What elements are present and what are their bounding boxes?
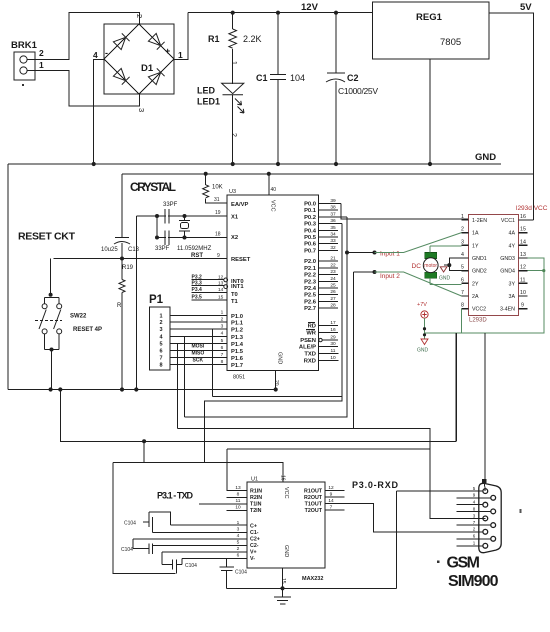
svg-text:2: 2 [461, 227, 464, 233]
svg-text:18: 18 [215, 232, 221, 238]
svg-text:C104: C104 [121, 547, 133, 553]
svg-text:3-4EN: 3-4EN [500, 307, 515, 313]
svg-text:2.2K: 2.2K [243, 34, 262, 44]
svg-text:35: 35 [330, 225, 336, 231]
svg-text:C1-: C1- [250, 530, 259, 536]
svg-text:V-: V- [250, 556, 255, 562]
svg-text:6: 6 [221, 345, 224, 351]
svg-text:P3.5: P3.5 [192, 295, 203, 301]
svg-text:12: 12 [218, 274, 224, 280]
svg-text:2: 2 [230, 133, 237, 137]
svg-text:33PF: 33PF [155, 246, 170, 252]
svg-text:INT1: INT1 [231, 284, 244, 290]
svg-text:P2.5: P2.5 [304, 293, 317, 299]
svg-text:GND3: GND3 [500, 256, 515, 262]
svg-text:3A: 3A [509, 294, 516, 300]
svg-text:3: 3 [237, 527, 240, 533]
svg-text:P1.1: P1.1 [231, 321, 244, 327]
svg-text:SIM900: SIM900 [448, 573, 499, 590]
svg-text:4: 4 [221, 331, 224, 337]
svg-text:7: 7 [159, 355, 162, 361]
svg-text:T1OUT: T1OUT [305, 502, 323, 508]
svg-text:6: 6 [237, 553, 240, 559]
svg-text:10K: 10K [212, 185, 223, 191]
svg-text:13: 13 [235, 485, 241, 491]
svg-text:P3.0-RXD: P3.0-RXD [352, 480, 399, 490]
svg-text:40: 40 [271, 187, 277, 193]
svg-text:4Y: 4Y [509, 243, 516, 249]
svg-text:VCC1: VCC1 [501, 218, 515, 224]
svg-text:7: 7 [330, 505, 333, 511]
svg-text:P2.7: P2.7 [304, 306, 316, 312]
svg-text:P3.1 - TXD: P3.1 - TXD [157, 491, 194, 501]
svg-text:P0.5: P0.5 [304, 235, 317, 241]
svg-text:motor: motor [424, 263, 437, 269]
svg-text:P2.3: P2.3 [304, 279, 317, 285]
svg-text:Input 1: Input 1 [380, 251, 400, 258]
svg-text:C13: C13 [128, 247, 140, 253]
svg-text:28: 28 [330, 303, 336, 309]
svg-text:39: 39 [330, 198, 336, 204]
svg-text:GND: GND [283, 545, 289, 557]
svg-text:P1.3: P1.3 [231, 335, 244, 341]
svg-text:RESET 4P: RESET 4P [73, 327, 102, 333]
svg-text:R1IN: R1IN [250, 488, 262, 494]
svg-text:8: 8 [461, 303, 464, 309]
svg-text:9: 9 [521, 303, 524, 309]
svg-text:R2OUT: R2OUT [304, 495, 323, 501]
svg-text:LED: LED [197, 86, 216, 96]
svg-text:33: 33 [330, 238, 336, 244]
svg-text:C2: C2 [347, 73, 359, 83]
svg-text:V+: V+ [250, 550, 257, 556]
svg-text:C+: C+ [250, 524, 257, 530]
svg-text:P0.4: P0.4 [304, 228, 317, 234]
svg-text:X1: X1 [231, 215, 239, 221]
svg-text:2: 2 [39, 48, 44, 58]
svg-text:P1.0: P1.0 [231, 314, 243, 320]
svg-text:GND: GND [439, 276, 451, 282]
svg-text:P2.6: P2.6 [304, 299, 317, 305]
svg-text:P2.0: P2.0 [304, 259, 316, 265]
svg-text:26: 26 [330, 289, 336, 295]
svg-text:WR: WR [306, 331, 316, 337]
svg-text:2Y: 2Y [472, 281, 479, 287]
svg-text:D1: D1 [141, 63, 154, 74]
svg-text:3: 3 [159, 327, 162, 333]
svg-text:7: 7 [221, 352, 224, 358]
svg-text:10: 10 [520, 290, 526, 296]
svg-text:16: 16 [280, 475, 286, 481]
svg-text:104: 104 [290, 73, 305, 83]
svg-text:11: 11 [236, 498, 241, 504]
svg-text:19: 19 [215, 210, 221, 216]
svg-text:20: 20 [273, 380, 279, 386]
svg-text:37: 37 [330, 211, 336, 217]
svg-text:R19: R19 [122, 265, 134, 271]
svg-text:T0: T0 [231, 292, 238, 298]
svg-text:9: 9 [330, 491, 333, 497]
svg-text:5: 5 [237, 540, 240, 546]
svg-text:L293D: L293D [469, 318, 487, 324]
svg-text:10: 10 [330, 355, 336, 361]
svg-text:30: 30 [330, 341, 336, 347]
svg-text:10u25: 10u25 [101, 247, 118, 253]
svg-text:7805: 7805 [440, 37, 461, 48]
svg-text:23: 23 [330, 269, 336, 275]
svg-text:GND1: GND1 [472, 256, 487, 262]
svg-text:P1.5: P1.5 [231, 349, 244, 355]
svg-text:17: 17 [330, 320, 336, 326]
svg-text:1: 1 [39, 60, 44, 70]
svg-text:24: 24 [330, 276, 336, 282]
svg-text:3: 3 [461, 239, 464, 245]
svg-text:C104: C104 [235, 570, 247, 576]
svg-text:5V: 5V [520, 2, 532, 13]
svg-text:31: 31 [214, 197, 220, 203]
svg-text:P1.6: P1.6 [231, 356, 244, 362]
svg-text:VCC2: VCC2 [472, 307, 486, 313]
svg-text:16: 16 [520, 214, 526, 220]
svg-text:11: 11 [331, 348, 336, 354]
svg-text:11: 11 [520, 277, 526, 283]
svg-text:U3: U3 [229, 189, 236, 195]
svg-text:13: 13 [218, 281, 224, 287]
svg-text:EA/VP: EA/VP [231, 202, 249, 208]
svg-text:R1OUT: R1OUT [304, 488, 323, 494]
svg-text:X2: X2 [231, 235, 238, 241]
svg-text:2: 2 [135, 14, 144, 18]
svg-text:1: 1 [178, 50, 183, 60]
svg-text:P0.6: P0.6 [304, 242, 317, 248]
svg-text:1-2EN: 1-2EN [472, 218, 487, 224]
svg-text:REG1: REG1 [416, 12, 443, 23]
svg-text:4: 4 [461, 252, 464, 258]
svg-text:SW22: SW22 [70, 314, 87, 320]
svg-text:14: 14 [328, 498, 334, 504]
svg-text:2: 2 [159, 320, 162, 326]
svg-text:P0.2: P0.2 [304, 215, 316, 221]
svg-text:VCC: VCC [283, 487, 289, 499]
svg-text:GND2: GND2 [472, 269, 487, 275]
svg-text:3: 3 [221, 324, 224, 330]
svg-text:P3.2: P3.2 [192, 274, 203, 280]
svg-text:T2OUT: T2OUT [305, 508, 323, 514]
svg-text:P0.0: P0.0 [304, 202, 316, 208]
svg-text:33PF: 33PF [163, 202, 178, 208]
svg-text:1: 1 [230, 61, 237, 65]
svg-text:GSM: GSM [447, 555, 481, 572]
svg-text:P0.3: P0.3 [304, 222, 317, 228]
svg-text:VCC: VCC [270, 200, 276, 212]
svg-text:4: 4 [237, 533, 240, 539]
svg-text:P3.4: P3.4 [192, 287, 203, 293]
svg-text:+7V: +7V [417, 302, 427, 308]
svg-text:P2.4: P2.4 [304, 286, 317, 292]
svg-text:T2IN: T2IN [250, 508, 262, 514]
svg-text:1: 1 [461, 214, 464, 220]
svg-text:Input 2: Input 2 [380, 273, 400, 280]
svg-text:P1.2: P1.2 [231, 328, 243, 334]
svg-text:1A: 1A [472, 231, 479, 237]
svg-text:1Y: 1Y [472, 243, 479, 249]
svg-text:2: 2 [221, 317, 224, 323]
svg-text:16: 16 [330, 327, 336, 333]
svg-text:8: 8 [237, 491, 240, 497]
svg-text:15: 15 [280, 578, 286, 584]
svg-text:10: 10 [235, 505, 241, 511]
svg-text:GND: GND [276, 352, 282, 364]
svg-text:C104: C104 [185, 563, 197, 569]
svg-text:5: 5 [159, 341, 162, 347]
svg-text:CRYSTAL: CRYSTAL [130, 180, 176, 194]
svg-text:PSEN: PSEN [300, 338, 316, 344]
svg-text:C1000/25V: C1000/25V [338, 86, 378, 96]
svg-text:GND4: GND4 [500, 269, 515, 275]
svg-text:2: 2 [237, 546, 240, 552]
svg-text:-: - [105, 48, 108, 58]
svg-text:P3.3: P3.3 [192, 281, 203, 287]
svg-text:4: 4 [93, 50, 98, 60]
svg-text:TXD: TXD [304, 352, 316, 358]
svg-text:C104: C104 [124, 521, 136, 527]
svg-text:6: 6 [159, 348, 162, 354]
svg-text:RESET CKT: RESET CKT [18, 231, 76, 243]
svg-text:LED1: LED1 [197, 97, 220, 107]
svg-text:12: 12 [520, 265, 526, 271]
svg-text:P2.2: P2.2 [304, 273, 316, 279]
svg-text:3: 3 [137, 108, 146, 112]
svg-text:MOSI: MOSI [192, 344, 205, 350]
svg-text:5: 5 [461, 265, 464, 271]
svg-text:R1: R1 [208, 34, 220, 44]
svg-text:1: 1 [237, 520, 240, 526]
svg-text:RD: RD [308, 324, 316, 330]
svg-text:ALE/P: ALE/P [299, 345, 316, 351]
svg-text:12V: 12V [301, 2, 319, 13]
svg-text:MISO: MISO [192, 351, 205, 357]
svg-text:MAX232: MAX232 [302, 576, 323, 582]
svg-text:P1.4: P1.4 [231, 342, 244, 348]
svg-text:8051: 8051 [233, 375, 245, 381]
svg-text:15: 15 [218, 295, 224, 301]
svg-text:34: 34 [330, 232, 336, 238]
svg-text:R: R [117, 303, 122, 309]
svg-text:BRK1: BRK1 [11, 40, 38, 51]
svg-text:C1: C1 [256, 73, 268, 83]
svg-text:U1: U1 [251, 477, 258, 483]
svg-text:14: 14 [520, 239, 526, 245]
svg-text:38: 38 [330, 205, 336, 211]
svg-text:14: 14 [218, 287, 224, 293]
svg-text:5: 5 [221, 338, 224, 344]
svg-text:3Y: 3Y [509, 281, 516, 287]
svg-text:11.0592MHZ: 11.0592MHZ [177, 246, 212, 252]
svg-text:P1: P1 [149, 294, 164, 306]
svg-text:2A: 2A [472, 294, 479, 300]
svg-text:R2IN: R2IN [250, 495, 262, 501]
svg-text:4A: 4A [509, 231, 516, 237]
svg-text:8: 8 [159, 362, 162, 368]
svg-text:+: + [165, 46, 170, 56]
svg-text:12: 12 [328, 485, 334, 491]
svg-text:l293d VCC: l293d VCC [516, 205, 548, 212]
svg-text:9: 9 [217, 253, 220, 259]
svg-text:RXD: RXD [304, 359, 316, 365]
svg-text:RESET: RESET [231, 257, 251, 263]
svg-text:6: 6 [461, 277, 464, 283]
svg-text:P0.7: P0.7 [304, 248, 316, 254]
svg-text:1: 1 [221, 310, 224, 316]
svg-text:1: 1 [159, 313, 162, 319]
svg-text:32: 32 [330, 245, 336, 251]
svg-text:7: 7 [461, 290, 464, 296]
svg-text:SCK: SCK [193, 358, 204, 364]
svg-text:36: 36 [330, 218, 336, 224]
svg-text:C2+: C2+ [250, 537, 260, 543]
svg-text:29: 29 [330, 335, 336, 341]
svg-text:13: 13 [520, 252, 526, 258]
svg-text:P2.1: P2.1 [304, 266, 317, 272]
svg-text:15: 15 [520, 227, 526, 233]
svg-text:GND: GND [475, 152, 496, 163]
svg-text:22: 22 [330, 262, 336, 268]
svg-text:8: 8 [221, 359, 224, 365]
svg-text:P0.1: P0.1 [304, 208, 317, 214]
svg-text:25: 25 [330, 283, 336, 289]
svg-text:27: 27 [330, 296, 336, 302]
svg-text:GND: GND [417, 348, 429, 354]
svg-text:P1.7: P1.7 [231, 363, 243, 369]
svg-text:DC: DC [412, 263, 422, 270]
svg-text:T1: T1 [231, 299, 239, 305]
svg-text:C2-: C2- [250, 543, 259, 549]
svg-text:T1IN: T1IN [250, 502, 262, 508]
svg-text:21: 21 [330, 256, 336, 262]
